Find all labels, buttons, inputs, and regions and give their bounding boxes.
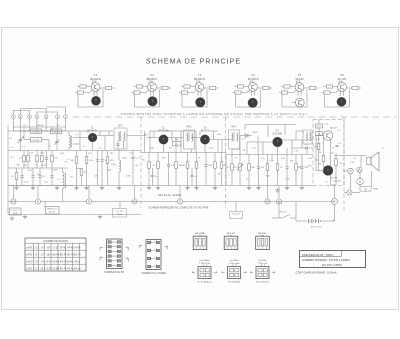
resistor R10 xyxy=(181,153,189,186)
svg-text:2 5: 2 5 xyxy=(35,259,39,263)
svg-text:3,3K: 3,3K xyxy=(126,176,131,178)
resistor R1 xyxy=(27,151,30,169)
svg-text:CONT CHAR MOYENNE : 10 /9m: CONT CHAR MOYENNE : 10 /9mA xyxy=(296,270,337,274)
svg-text:1n: 1n xyxy=(35,165,37,167)
resistor R6 xyxy=(106,151,114,186)
wire right mesh extra xyxy=(350,148,385,164)
capacitor C9 xyxy=(167,153,175,186)
svg-text:50uF: 50uF xyxy=(107,170,112,172)
resistor det extra 1 xyxy=(226,155,233,186)
svg-text:GO: GO xyxy=(56,125,60,127)
svg-text:B.O 2 (N.Po): B.O 2 (N.Po) xyxy=(256,282,269,284)
resistor R5 xyxy=(85,151,93,186)
ground IF stage 1 xyxy=(156,186,160,190)
capacitor C5 trimmer xyxy=(54,134,59,151)
svg-text:SC142: SC142 xyxy=(295,77,304,81)
svg-text:T.6: T.6 xyxy=(340,73,344,77)
detail MF3 MO can xyxy=(256,233,270,249)
svg-text:1n: 1n xyxy=(104,160,106,162)
svg-text:6 4: 6 4 xyxy=(41,259,45,263)
transistor T.6 AC188 (output, dark) xyxy=(323,166,338,180)
svg-text:PO/FM: PO/FM xyxy=(33,140,40,142)
svg-text:44 1u: 44 1u xyxy=(74,266,81,270)
terminal node 2 xyxy=(56,115,60,119)
svg-text:T.2: T.2 xyxy=(150,73,154,77)
svg-text:C.6 41.2: C.6 41.2 xyxy=(12,210,19,212)
junction node IF bus xyxy=(132,199,137,204)
resistor R2 xyxy=(36,151,39,169)
transistor T.4 (AF preamp, dark) xyxy=(273,137,283,147)
resistor R2b xyxy=(41,151,44,169)
ground coil return xyxy=(31,186,35,190)
svg-text:GO 150 a 255Kc: GO 150 a 255Kc xyxy=(322,263,343,267)
transistor inset T.6 AC187 (top row stage 6) xyxy=(322,73,362,107)
svg-text:T.3: T.3 xyxy=(198,73,202,77)
svg-text:76 45: 76 45 xyxy=(60,245,67,249)
jack J1 (earphone) xyxy=(348,168,353,173)
resistor R13 xyxy=(248,155,256,186)
capacitor IF extra xyxy=(151,168,158,186)
driver transformer TR.1 xyxy=(303,130,312,144)
svg-text:T 140 u 4Ke: T 140 u 4Ke xyxy=(228,263,240,265)
svg-text:AV CH: AV CH xyxy=(49,211,56,214)
node A (bus junction left) xyxy=(11,199,16,204)
oscillator coil L.2 xyxy=(113,149,120,186)
ground mixer 2 xyxy=(100,186,104,190)
capacitor C8 decoupling xyxy=(173,139,182,146)
switch PO/GO xyxy=(51,129,62,134)
svg-text:FE2A: FE2A xyxy=(117,213,123,216)
ground input extra xyxy=(55,186,59,190)
dashed output stage enclosure xyxy=(313,120,344,186)
ground mixer emitter xyxy=(84,186,88,190)
junction node bus x38 xyxy=(35,199,40,204)
svg-text:M: M xyxy=(359,180,361,184)
svg-text:6,8K: 6,8K xyxy=(60,153,65,155)
svg-text:2 3: 2 3 xyxy=(35,266,39,270)
svg-text:T 150 u 75e: T 150 u 75e xyxy=(199,263,211,265)
ground IF stage 2 xyxy=(194,186,198,190)
capacitor C12 xyxy=(285,155,288,186)
coil L.0 input transformer xyxy=(69,131,72,151)
IF transformer MF.1 xyxy=(114,126,127,150)
wire IF row connections xyxy=(141,131,232,186)
wire bus risers xyxy=(8,186,335,199)
svg-text:CONNECT CL CAVIER: CONNECT CL CAVIER xyxy=(141,272,166,275)
junction node AF bus 1 xyxy=(265,199,270,204)
transistor T.2 label (IF1) xyxy=(158,126,168,132)
ground input section xyxy=(14,186,18,190)
svg-text:50uF: 50uF xyxy=(265,176,270,178)
svg-text:0,1: 0,1 xyxy=(325,182,328,184)
detail bobinage T.P.2 xyxy=(222,260,247,283)
svg-text:74 45: 74 45 xyxy=(74,245,81,249)
caption under top row xyxy=(120,112,307,116)
svg-text:a PO 4: a PO 4 xyxy=(26,252,35,256)
terminal node 4 xyxy=(35,115,39,119)
title SCHEMA DE PRINCIPE xyxy=(146,59,241,66)
dashed boundary vertical output section xyxy=(343,117,345,211)
svg-text:a GO 4: a GO 4 xyxy=(26,266,35,270)
svg-text:R.22: R.22 xyxy=(317,126,321,128)
label IF values xyxy=(144,129,221,159)
svg-text:a GO 7: a GO 7 xyxy=(26,259,35,263)
transistor T.3 label (IF2) xyxy=(201,126,210,132)
svg-text:1n: 1n xyxy=(195,176,197,178)
svg-text:B.O 1 (N.Bas): B.O 1 (N.Bas) xyxy=(198,282,212,284)
svg-text:T.1: T.1 xyxy=(94,73,98,77)
svg-text:BF195-D: BF195-D xyxy=(194,77,205,81)
switch PU/GO xyxy=(24,129,47,134)
svg-text:T.P 2 (N.Mo): T.P 2 (N.Mo) xyxy=(228,282,241,284)
terminal node 5 xyxy=(28,115,32,119)
transistor T.1 can (dark) xyxy=(91,96,100,105)
switch unit box MFGE xyxy=(46,207,60,215)
resistor R4 xyxy=(71,151,78,186)
transistor inset T.4 SC146-B (top row stage 4) xyxy=(233,73,273,107)
transistor T.6 can (dark) xyxy=(337,97,346,106)
capacitor det extra xyxy=(300,155,308,186)
tone control box xyxy=(360,187,379,192)
wire IF extra mesh xyxy=(145,131,227,186)
detail MF2 MO can xyxy=(224,233,238,249)
capacitor C10 xyxy=(204,153,212,186)
table combinations (grid) xyxy=(25,238,86,271)
label schema complete note xyxy=(148,205,208,209)
svg-text:0 12: 0 12 xyxy=(53,245,59,249)
diode D1 detector xyxy=(240,134,252,138)
switch row 2 left xyxy=(24,131,49,151)
wire detector mesh extra xyxy=(232,131,307,160)
resistor R14 xyxy=(266,155,269,186)
svg-text:T.4: T.4 xyxy=(251,73,255,77)
svg-text:74 45: 74 45 xyxy=(67,245,74,249)
resistor R15 xyxy=(276,155,283,186)
transistor inset T.2 BF195-C (top row stage 2) xyxy=(132,73,172,107)
resistor IF extra 2 xyxy=(220,153,227,186)
jack J2 arrow xyxy=(357,167,362,172)
svg-text:FE2A: FE2A xyxy=(13,212,18,215)
wire left vertical bus xyxy=(7,125,9,202)
resistor R12 xyxy=(214,153,217,186)
terminal node 6 xyxy=(19,115,23,119)
transistor T.2 (IF1, dark) xyxy=(159,135,168,144)
svg-text:Modele E300: Modele E300 xyxy=(158,193,181,197)
capacitor IF extra 2 xyxy=(190,168,197,186)
IF transformer MF.2 xyxy=(184,127,195,150)
wire antenna tap xyxy=(13,125,65,134)
transistor T.1 label (mixer) xyxy=(87,126,97,132)
detail bobinage B.O.2 xyxy=(250,260,275,283)
svg-text:BF194-B: BF194-B xyxy=(90,77,101,81)
capacitor C3 50uF xyxy=(31,168,40,186)
transistor T.3 can (dark) xyxy=(196,98,206,108)
ground sub-bus 1 xyxy=(23,215,27,219)
svg-text:10K: 10K xyxy=(251,167,255,169)
svg-text:PU/GO: PU/GO xyxy=(32,131,40,133)
ground mixer 3 xyxy=(74,186,78,190)
svg-text:MF.2: MF.2 xyxy=(187,127,193,129)
capacitor C4 xyxy=(50,168,53,186)
svg-text:T.5: T.5 xyxy=(298,73,302,77)
wire detector/AF connections xyxy=(226,136,313,186)
svg-text:MFGE unit: MFGE unit xyxy=(47,208,57,211)
svg-text:3 7: 3 7 xyxy=(35,252,39,256)
svg-text:Can 500e: Can 500e xyxy=(229,260,239,262)
switch M.T (O) xyxy=(230,202,243,219)
svg-text:25uF: 25uF xyxy=(285,179,290,181)
resistor R16 xyxy=(295,155,303,186)
svg-text:10uF: 10uF xyxy=(269,161,274,163)
terminal strip connecting wires (top) xyxy=(13,107,65,115)
label Modele E300 xyxy=(158,193,181,197)
svg-text:8 47: 8 47 xyxy=(46,259,52,263)
svg-text:MF2 MO: MF2 MO xyxy=(227,233,236,235)
svg-text:8 9: 8 9 xyxy=(47,245,51,249)
wire tuner small labels xyxy=(10,146,47,172)
transistor T.1 (mixer, dark) xyxy=(88,133,97,142)
label consommation note xyxy=(296,270,337,274)
resistor R3 xyxy=(11,168,18,186)
terminal node 7 xyxy=(12,115,16,119)
detail bobinage B.O.1 xyxy=(192,260,217,283)
capacitor C7 padder xyxy=(131,151,139,186)
resistor R8 xyxy=(148,153,151,186)
svg-text:(9V G.) 9V: (9V G.) 9V xyxy=(311,227,322,229)
ground det extra xyxy=(256,186,304,193)
svg-text:INT. (O): INT. (O) xyxy=(279,212,287,214)
svg-text:BF195-C: BF195-C xyxy=(147,77,158,81)
transistor T.5 AC187 (output, open) xyxy=(323,127,337,141)
svg-text:OA79: OA79 xyxy=(252,131,258,134)
svg-text:SCHEMA DE PRINCIPE: SCHEMA DE PRINCIPE xyxy=(146,59,241,66)
svg-text:AC187: AC187 xyxy=(330,127,337,130)
svg-text:93 64: 93 64 xyxy=(53,259,60,263)
svg-text:AC188: AC188 xyxy=(331,177,338,180)
svg-text:65 74: 65 74 xyxy=(74,252,81,256)
svg-text:9 7: 9 7 xyxy=(41,245,45,249)
resistor R2c xyxy=(51,151,59,169)
switch MT.PUT interrupteur xyxy=(272,202,296,219)
wire amp to speaker feed xyxy=(334,155,367,157)
svg-text:65 75: 65 75 xyxy=(67,252,74,256)
svg-text:SC146B: SC146B xyxy=(273,133,282,136)
resistor amp bias lower xyxy=(316,132,323,136)
terminal node 3 xyxy=(44,115,48,119)
svg-text:PO/GO: PO/GO xyxy=(52,131,60,133)
svg-text:C.O 42.2: C.O 42.2 xyxy=(115,211,124,213)
svg-text:MF.1: MF.1 xyxy=(118,126,124,128)
wire output mesh extra xyxy=(315,136,343,186)
svg-text:0,5: 0,5 xyxy=(338,130,341,132)
svg-text:Can 500Ke: Can 500Ke xyxy=(199,260,210,262)
transistor T.2 can (dark) xyxy=(148,97,158,107)
svg-text:46 76: 46 76 xyxy=(60,266,67,270)
terminal node 1 xyxy=(64,115,68,119)
dashed tiroir boundary line (top) xyxy=(73,116,396,118)
label mixer values xyxy=(88,147,138,177)
svg-text:18 9: 18 9 xyxy=(46,252,52,256)
terminal strip wires down xyxy=(13,119,65,129)
wire input section horizontals xyxy=(8,131,73,186)
wire mixer grid row xyxy=(73,131,113,151)
junction node output bus xyxy=(332,199,338,205)
transistor inset T.5 SC142 (top row stage 5, twin open) xyxy=(279,73,319,107)
svg-text:T 155 u 9e: T 155 u 9e xyxy=(258,263,269,265)
dashed boundary vertical detector section xyxy=(225,117,227,208)
connector CONNECT CLAVIER xyxy=(140,240,168,276)
wire main ground bus xyxy=(8,201,335,203)
IF transformer MF.3 xyxy=(229,127,240,150)
resistor R19 xyxy=(335,159,338,166)
svg-text:FREQUENCE MF : 455Kc: FREQUENCE MF : 455Kc xyxy=(302,253,334,257)
svg-text:3 7: 3 7 xyxy=(41,252,45,256)
ground IF extra xyxy=(147,186,217,190)
resistor mixer extra xyxy=(77,169,89,186)
ground sub-bus 2 xyxy=(98,215,102,219)
wire mixer connections xyxy=(8,131,141,186)
label amp misc xyxy=(319,124,340,184)
svg-text:50uF: 50uF xyxy=(122,158,127,160)
ground oscillator xyxy=(117,186,121,190)
resistor R18 NTC xyxy=(318,155,325,165)
svg-text:AC 187: AC 187 xyxy=(338,77,347,81)
svg-text:64 73: 64 73 xyxy=(60,259,67,263)
capacitor C6 xyxy=(96,151,99,186)
jack J3 motor xyxy=(357,178,363,184)
svg-text:MF3 MO: MF3 MO xyxy=(258,233,267,235)
svg-text:a PO.2: a PO.2 xyxy=(26,245,35,249)
resistor amp bias upper xyxy=(316,120,323,136)
svg-text:100: 100 xyxy=(364,189,367,191)
capacitor C2 xyxy=(45,151,48,169)
svg-text:50uF: 50uF xyxy=(42,165,47,167)
svg-text:SCHEMA REPRESENTE COMPLETE OV: SCHEMA REPRESENTE COMPLETE OV PE TAPE xyxy=(148,205,208,209)
svg-text:50uF: 50uF xyxy=(53,170,58,172)
svg-text:64 41: 64 41 xyxy=(67,259,74,263)
capacitor C3c xyxy=(38,168,46,186)
wire sub-bus left xyxy=(8,202,141,215)
transistor T.5 lower (open circle) xyxy=(292,98,304,107)
capacitor C11 xyxy=(257,155,265,186)
spec box frequence MF / gammes xyxy=(300,251,366,268)
svg-text:AGC: AGC xyxy=(166,129,171,132)
svg-text:GAMMES D'ONDES : PO 520 a 1605: GAMMES D'ONDES : PO 520 a 1605Kc xyxy=(302,258,351,262)
label plus terminal xyxy=(333,219,335,223)
ground AF preamp xyxy=(285,186,289,190)
wire AF feed to amp xyxy=(245,125,303,141)
svg-text:GO: GO xyxy=(70,177,74,179)
svg-text:16 2: 16 2 xyxy=(40,266,46,270)
ground detector xyxy=(247,186,251,190)
potentiometer volume P1 xyxy=(233,155,243,186)
capacitor C13 coupling xyxy=(305,144,310,150)
svg-text:4,7V: 4,7V xyxy=(28,170,33,172)
capacitor C1 variable (tuning) xyxy=(17,131,24,151)
dashed boundary vertical MF section xyxy=(140,117,142,208)
junction node right small xyxy=(347,190,352,195)
resistor R9 xyxy=(153,153,160,186)
svg-text:BF1910: BF1910 xyxy=(201,129,210,132)
speaker LS1 xyxy=(367,152,380,171)
wire output stage connections xyxy=(316,136,334,186)
svg-text:TRAN: TRAN xyxy=(373,188,379,191)
svg-text:4,7K: 4,7K xyxy=(29,152,34,154)
svg-text:52 86: 52 86 xyxy=(53,266,60,270)
label scatter extra values xyxy=(65,148,313,179)
svg-text:SC146 B: SC146 B xyxy=(248,77,259,81)
resistor R1b xyxy=(19,151,25,169)
connector COMPLET DU PU xyxy=(100,239,129,274)
transistor T.3 (IF2, dark) xyxy=(200,135,209,144)
label det values xyxy=(235,150,313,181)
svg-text:1n: 1n xyxy=(155,176,157,178)
capacitor mixer bypass xyxy=(100,151,106,186)
wire speaker connections xyxy=(344,156,372,193)
transistor T.4 label (AF pre) xyxy=(273,130,282,136)
coil L.1 (ferrite rod) xyxy=(57,168,66,202)
svg-text:85 76: 85 76 xyxy=(60,252,67,256)
wire mixer-IF couplings xyxy=(113,135,147,137)
capacitor C3b xyxy=(20,168,23,186)
transistor inset T.3 BF195-D (top row stage 3) xyxy=(179,73,219,107)
resistor R17 xyxy=(313,143,319,150)
junction node bus x89 xyxy=(86,199,91,204)
svg-text:50: 50 xyxy=(332,148,334,150)
svg-text:COMPLET DU PU: COMPLET DU PU xyxy=(104,271,124,274)
switch box C.6 41.2 (left) xyxy=(10,208,22,220)
svg-text:TIROIRS MONTES AVEC VALMOINE A: TIROIRS MONTES AVEC VALMOINE A LAMPE EN … xyxy=(120,112,307,116)
battery B1 9V xyxy=(296,202,335,229)
wire input box row upper xyxy=(13,124,65,131)
svg-text:Tu3 500u: Tu3 500u xyxy=(258,260,268,262)
svg-text:COMBINAISONS: COMBINAISONS xyxy=(43,239,68,243)
svg-text:65 45: 65 45 xyxy=(53,252,60,256)
resistor IF extra 1 xyxy=(175,153,182,186)
svg-text:CADRE: CADRE xyxy=(36,124,44,127)
junction node bus x180 xyxy=(177,199,182,204)
svg-text:MF.3: MF.3 xyxy=(232,127,238,129)
transistor T.4 can (dark) xyxy=(248,98,258,108)
svg-text:9 36: 9 36 xyxy=(46,266,52,270)
resistor R11 xyxy=(195,153,198,186)
svg-text:3 2: 3 2 xyxy=(35,245,39,249)
svg-text:M.T (O): M.T (O) xyxy=(232,214,239,216)
svg-text:C.19: C.19 xyxy=(324,124,328,126)
transistor inset T.1 BF194-B (top row stage 1) xyxy=(75,73,115,107)
label input values xyxy=(9,138,70,184)
detail MF1 PEAK can xyxy=(193,232,207,249)
capacitor C14 xyxy=(335,145,338,146)
junction node AF bus 2 xyxy=(276,199,281,204)
svg-text:41 4u: 41 4u xyxy=(67,266,74,270)
svg-text:44 11: 44 11 xyxy=(74,259,81,263)
svg-text:MF. PEAK: MF. PEAK xyxy=(195,232,206,235)
switch C.O FE2A xyxy=(113,209,127,218)
